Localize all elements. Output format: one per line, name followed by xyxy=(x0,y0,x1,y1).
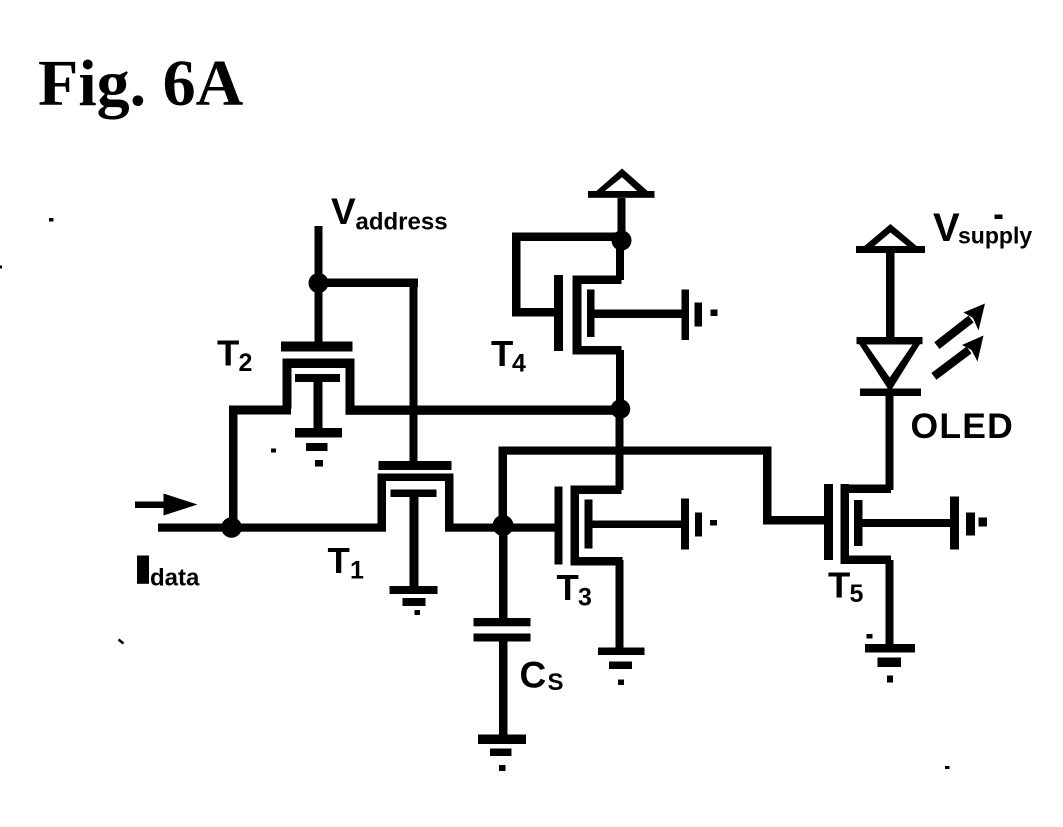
capacitor CS xyxy=(474,618,531,642)
power symbol Vsupply xyxy=(856,224,925,253)
svg-text:T: T xyxy=(217,333,239,374)
wire horizontal to T5 gate xyxy=(763,516,825,525)
ground below T1 xyxy=(390,586,438,615)
svg-text:supply: supply xyxy=(958,223,1032,249)
label T4 xyxy=(491,333,526,378)
wire T2 source horizontal xyxy=(229,406,291,415)
arrow Idata input xyxy=(135,494,198,516)
node Idata junction xyxy=(221,517,242,538)
label Idata xyxy=(137,556,200,592)
svg-text:T: T xyxy=(828,565,850,606)
svg-text:data: data xyxy=(150,565,200,592)
svg-text:T: T xyxy=(491,333,513,374)
transistor T2 xyxy=(281,342,355,430)
ground rotated at T4 bulk xyxy=(682,290,718,341)
label T2 xyxy=(217,333,252,378)
svg-text:T: T xyxy=(557,567,579,608)
transistor T4 xyxy=(554,240,682,410)
node B storage junction xyxy=(493,515,514,536)
label T5 xyxy=(828,565,864,609)
stray mark bottom right xyxy=(945,766,950,769)
light emission arrow 1 xyxy=(937,304,985,346)
svg-text:address: address xyxy=(356,209,448,236)
svg-text:V: V xyxy=(933,206,960,250)
wire T2 drain to node A xyxy=(346,406,625,415)
svg-text:Fig. 6A: Fig. 6A xyxy=(38,47,244,120)
svg-text:S: S xyxy=(548,669,564,696)
wire branch vertical down to T1 gate xyxy=(410,279,418,466)
wire Vsupply to OLED anode xyxy=(886,251,895,339)
svg-text:5: 5 xyxy=(850,580,864,608)
wire power to T4 node xyxy=(618,198,626,242)
wire right vertical down xyxy=(763,447,772,525)
stray mark left of T2 ground xyxy=(271,449,276,453)
transistor T1 xyxy=(378,461,454,588)
label T1 xyxy=(328,540,365,585)
node T4 drain-gate junction xyxy=(612,231,632,251)
power symbol above T4 xyxy=(588,169,655,198)
ground rotated at T5 bulk xyxy=(950,497,987,550)
wire capacitor to ground xyxy=(499,642,508,736)
wire Idata line right segment to T3 gate xyxy=(445,524,558,532)
ground rotated at T3 bulk xyxy=(681,499,717,550)
wire node B up xyxy=(499,447,508,527)
wire OLED cathode to T5 drain xyxy=(886,396,894,490)
wire T2 source leg down to Idata node xyxy=(229,406,238,532)
wire node B down to capacitor xyxy=(499,527,508,619)
svg-text:2: 2 xyxy=(239,349,253,377)
light emission arrow 2 xyxy=(934,336,984,377)
label Vsupply xyxy=(933,206,1032,250)
svg-text:OLED: OLED xyxy=(911,406,1014,446)
label T3 xyxy=(557,567,592,612)
node Vaddress junction xyxy=(309,273,329,293)
stray mark left edge xyxy=(0,266,2,269)
wire Vaddress down to junction xyxy=(315,226,323,286)
ground below T2 xyxy=(295,428,342,467)
svg-text:3: 3 xyxy=(578,584,592,612)
label Vaddress xyxy=(331,191,448,236)
stray mark above supply xyxy=(995,215,1003,220)
transistor T5 xyxy=(824,484,951,645)
svg-text:4: 4 xyxy=(512,350,526,378)
transistor T3 xyxy=(555,406,684,649)
ground below CS xyxy=(478,735,526,772)
stray mark below Idata xyxy=(119,640,124,644)
node A junction xyxy=(611,399,631,419)
svg-text:C: C xyxy=(520,655,547,696)
ground below T3 xyxy=(598,648,645,686)
ground below T5 xyxy=(865,634,915,683)
diode OLED xyxy=(857,337,923,396)
wire branch horizontal to T1 gate xyxy=(315,279,418,288)
svg-text:T: T xyxy=(328,540,350,581)
svg-text:1: 1 xyxy=(350,557,364,585)
wire T4 diode connection xyxy=(512,233,622,317)
stray mark upper left xyxy=(49,218,54,222)
svg-text:V: V xyxy=(331,191,356,232)
wire junction to T2 gate xyxy=(315,283,323,345)
wire long horizontal to T5 xyxy=(499,447,772,455)
label CS xyxy=(520,655,564,697)
wire Idata line left segment xyxy=(158,524,386,532)
